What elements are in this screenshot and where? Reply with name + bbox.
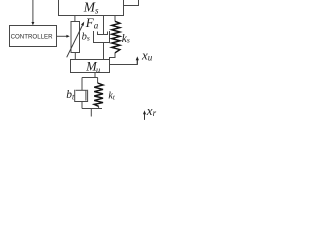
actuator top stub wire: [74, 16, 76, 22]
svg-text:Mu: Mu: [85, 60, 100, 75]
wire x_u: [110, 60, 138, 65]
arrowhead x_u: [136, 56, 139, 60]
actuator rect: [71, 22, 80, 53]
damper b_t rod: [81, 78, 83, 91]
spring k_t top stub: [97, 78, 99, 84]
controller box: [10, 26, 57, 47]
arrowhead controller output: [66, 35, 69, 38]
arrowhead controller input: [31, 22, 34, 25]
actuator bottom stub wire: [74, 53, 76, 60]
arrowhead actuator diagonal: [81, 22, 84, 26]
tire top bar: [82, 77, 98, 79]
damper b_s top rod: [103, 16, 105, 35]
damper b_s cup: [94, 31, 110, 43]
ground stem: [90, 109, 92, 117]
damper b_t cup: [75, 90, 88, 102]
spring k_s top stub: [114, 16, 116, 22]
damper b_s piston: [98, 32, 108, 35]
bottom bar: [82, 108, 102, 110]
damper b_t bottom rod: [81, 102, 83, 109]
spring k_t zigzag: [94, 83, 103, 106]
spring k_s zigzag: [112, 21, 120, 53]
svg-text:kt: kt: [108, 91, 115, 102]
tire top stub wire: [94, 73, 96, 78]
spring k_t bottom stub: [98, 106, 100, 108]
svg-text:xr: xr: [146, 103, 157, 118]
mass M_u box: [71, 60, 110, 73]
svg-text:ks: ks: [122, 33, 130, 45]
wire x_s sensor step (top right): [124, 0, 139, 6]
arrow x_u shaft: [136, 60, 138, 65]
arrowhead x_r: [143, 110, 146, 114]
wire controller output: [57, 35, 67, 37]
svg-text:Fa: Fa: [85, 15, 99, 31]
mass M_s box (top edge cropped): [59, 0, 124, 16]
damper b_t piston tick: [85, 90, 87, 100]
svg-text:xu: xu: [141, 47, 153, 62]
svg-text:Ms: Ms: [83, 0, 99, 15]
wire controller input: [32, 0, 34, 22]
damper b_s bottom rod: [103, 43, 105, 60]
damper b_t piston: [76, 89, 87, 91]
svg-text:CONTROLLER: CONTROLLER: [11, 33, 54, 40]
svg-text:bt: bt: [66, 89, 75, 101]
spring k_s bottom jog wire: [110, 53, 116, 60]
svg-text:bs: bs: [82, 31, 90, 42]
arrow x_r shaft: [144, 114, 146, 120]
actuator diagonal arrow shaft: [67, 25, 83, 58]
